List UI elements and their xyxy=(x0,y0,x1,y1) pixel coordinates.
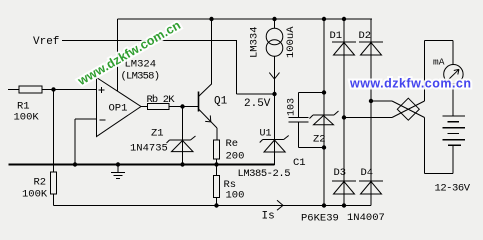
current source LM334 circles xyxy=(266,28,283,45)
wire U1 top xyxy=(274,94,276,164)
diode D1 xyxy=(332,41,356,43)
meter needle arrow xyxy=(447,69,460,81)
resistor Rb xyxy=(148,104,170,110)
wire R1 to op-amp plus input xyxy=(42,89,97,91)
svg-text:Q1: Q1 xyxy=(214,96,228,108)
diode D3 xyxy=(332,180,356,182)
wire Q1 emitter to Re xyxy=(216,128,218,140)
wire D1 top xyxy=(343,19,345,118)
op-amp plus marker xyxy=(99,87,105,93)
crossing wires X xyxy=(392,101,425,118)
svg-text:1N4735: 1N4735 xyxy=(130,143,168,155)
node bus-Re-Rs xyxy=(214,162,218,166)
wire bottom return line xyxy=(54,205,372,207)
wire rail to op-amp V+ xyxy=(117,19,119,91)
node rail-LM334 xyxy=(272,17,276,21)
zener Z1 xyxy=(167,136,196,143)
zener U1 LM385 xyxy=(260,136,289,143)
wire Re to bus xyxy=(216,159,218,165)
wire op-amp minus input xyxy=(75,118,97,120)
Is arrow on bottom line xyxy=(277,200,283,210)
wire C1 top vertical xyxy=(298,93,300,118)
transistor Q1 collector diagonal xyxy=(199,84,212,97)
wire 2.5V branch horizontal xyxy=(237,93,275,95)
node rail-D1 xyxy=(342,17,346,21)
wire 2.5V branch vertical xyxy=(236,41,238,95)
wire bus to Rs xyxy=(216,165,218,176)
op-amp minus marker xyxy=(100,119,106,121)
node Z2-C1 top xyxy=(322,90,326,94)
svg-text:Rb 2K: Rb 2K xyxy=(147,94,176,106)
wire meter branch top xyxy=(425,40,454,42)
wire meter branch left vertical xyxy=(424,41,426,102)
svg-text:LM385-2.5: LM385-2.5 xyxy=(238,168,291,180)
svg-text:200: 200 xyxy=(226,151,245,163)
op-amp U1 triangle OP1 xyxy=(97,78,142,137)
wire battery return up xyxy=(424,118,426,174)
node rail-Z2 xyxy=(322,17,326,21)
node D1-X xyxy=(342,115,346,119)
svg-text:mA: mA xyxy=(433,57,445,68)
watermark blue horizontal xyxy=(349,77,471,91)
resistor Re xyxy=(214,140,220,159)
svg-text:100K: 100K xyxy=(14,112,40,124)
node Rb-Q1-Z1 xyxy=(180,104,184,108)
current direction arrow xyxy=(269,73,279,79)
transistor Q1 emitter diagonal xyxy=(199,109,218,128)
wire Vref line xyxy=(62,40,237,42)
svg-text:2.5V: 2.5V xyxy=(244,98,271,110)
svg-text:D4: D4 xyxy=(361,167,374,179)
zener Z2 xyxy=(310,111,339,119)
wire C1 top horizontal xyxy=(299,92,325,94)
diode D2 xyxy=(359,41,383,43)
svg-text:P6KE39: P6KE39 xyxy=(301,213,339,225)
wire meter to battery xyxy=(452,84,454,116)
svg-text:Z1: Z1 xyxy=(151,128,164,140)
svg-text:D2: D2 xyxy=(359,30,372,42)
watermark green diagonal xyxy=(75,18,183,89)
svg-text:D3: D3 xyxy=(334,167,347,179)
svg-text:103: 103 xyxy=(287,98,298,116)
wire ground stub xyxy=(117,165,119,173)
svg-text:12-36V: 12-36V xyxy=(435,183,471,195)
svg-text:Z2: Z2 xyxy=(313,134,326,146)
wire C1 bottom horizontal xyxy=(299,147,325,149)
node bus-feedback xyxy=(73,162,77,166)
wire meter top lead xyxy=(452,41,454,65)
transistor Q1 base bar xyxy=(198,92,200,112)
wire feedback down to bus xyxy=(74,119,76,165)
transistor Q1 emitter arrowhead xyxy=(205,115,211,122)
wire Rs to bottom line xyxy=(216,198,218,206)
node bus-Z1 xyxy=(180,162,184,166)
svg-text:D1: D1 xyxy=(330,30,343,42)
svg-text:www.dzkfw.com.cn: www.dzkfw.com.cn xyxy=(349,77,471,91)
resistor Rs xyxy=(214,176,220,198)
svg-text:R2: R2 xyxy=(34,177,47,189)
wire top rail xyxy=(118,18,373,20)
ground xyxy=(111,173,125,179)
battery plates xyxy=(442,116,465,145)
svg-text:(LM358): (LM358) xyxy=(121,71,161,83)
connector diamond xyxy=(397,98,419,120)
wire C1 bottom vertical xyxy=(298,122,300,148)
wire battery bottom lead xyxy=(452,146,454,174)
wire R1 down to R2 xyxy=(53,90,55,173)
node D2-X xyxy=(369,99,373,103)
meter mA circle xyxy=(444,65,463,84)
svg-text:100uA: 100uA xyxy=(285,26,297,58)
wire D2 top xyxy=(370,19,372,206)
svg-text:C1: C1 xyxy=(293,157,306,169)
node bottom-Rs xyxy=(214,203,218,207)
wire R1 left xyxy=(8,89,19,91)
svg-text:Is: Is xyxy=(262,211,275,223)
resistor R1 xyxy=(19,86,42,93)
node bottom-D3 xyxy=(342,203,346,207)
wire sense bus (thick) xyxy=(9,164,275,166)
svg-text:100: 100 xyxy=(226,190,245,202)
wire X lower stub xyxy=(344,117,392,119)
wire R2 bottom to return line xyxy=(53,194,55,206)
node bus-ground xyxy=(116,162,120,166)
svg-text:100K: 100K xyxy=(22,189,48,201)
wire op-amp output xyxy=(141,106,148,108)
wire D3 bottom xyxy=(343,118,345,206)
wire Rb to Q1 base xyxy=(169,106,199,108)
wire LM334 top xyxy=(274,19,276,29)
svg-text:Vref: Vref xyxy=(33,36,59,48)
wire Q1 collector vertical xyxy=(211,19,213,85)
node 2.5V xyxy=(272,92,276,96)
wire LM334 bottom to node xyxy=(274,57,276,95)
wire Z1 stub xyxy=(182,107,184,165)
node rail-Q1 xyxy=(209,17,213,21)
svg-text:U1: U1 xyxy=(260,129,272,140)
node Z2-C1 bottom xyxy=(322,145,326,149)
node bottom-Z2 xyxy=(322,203,326,207)
svg-text:Re: Re xyxy=(226,138,239,150)
svg-text:1N4007: 1N4007 xyxy=(347,212,385,224)
wire bus up to U1 xyxy=(274,152,276,165)
wire battery return horizontal xyxy=(425,173,454,175)
svg-text:OP1: OP1 xyxy=(109,103,128,115)
node R1-R2-opamp xyxy=(51,87,55,91)
svg-text:LM334: LM334 xyxy=(249,26,261,58)
wire Z2 column top xyxy=(323,19,325,206)
diode D4 xyxy=(359,180,383,182)
wire X upper stub xyxy=(371,100,392,102)
capacitor C1 plates xyxy=(289,118,309,123)
resistor R2 xyxy=(51,172,57,194)
